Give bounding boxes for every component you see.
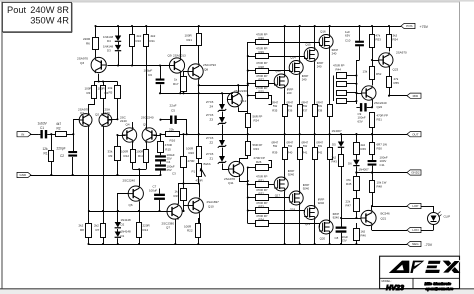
svg-text:100R: 100R [136, 149, 144, 153]
resistor R15 [158, 134, 173, 155]
svg-text:Q18: Q18 [290, 208, 296, 212]
svg-text:R5: R5 [109, 90, 113, 94]
resistor R24 [246, 114, 263, 128]
resistor R40 [287, 134, 303, 159]
svg-text:IN: IN [21, 132, 24, 136]
svg-text:5W: 5W [288, 104, 293, 108]
wire z2-z1 [222, 148, 224, 157]
svg-text:R10: R10 [136, 39, 142, 43]
svg-text:1N4007: 1N4007 [332, 129, 343, 133]
wire drain Q19 [314, 220, 316, 245]
mosfet Q16 [319, 29, 338, 55]
transistor Q1 [78, 108, 92, 127]
svg-text:2k2: 2k2 [137, 34, 142, 38]
transistor Q7 [162, 203, 183, 229]
wire Q12 emitter to bus [239, 108, 248, 112]
mosfet Q20 [319, 212, 339, 241]
svg-text:1N4148: 1N4148 [121, 218, 132, 222]
diode D4 [103, 25, 121, 43]
wire LOP line [372, 206, 407, 208]
wire Q10 collector up [199, 184, 201, 198]
wire Q11 collector down [240, 178, 249, 183]
diode D2 [115, 211, 131, 228]
svg-text:R33: R33 [259, 205, 265, 209]
svg-text:Q8: Q8 [204, 67, 208, 71]
wire Q23 base [371, 59, 379, 61]
svg-text:ZY15: ZY15 [206, 152, 214, 156]
wire vas line y93 [160, 93, 233, 95]
node rail dots [50, 25, 373, 245]
svg-text:5W: 5W [273, 144, 278, 148]
wire Q4 emitter down [132, 142, 134, 150]
svg-text:13k: 13k [363, 70, 368, 74]
wire z3-z2 [222, 125, 224, 141]
transistor Q9 [168, 53, 187, 73]
svg-text:POS: POS [406, 24, 412, 28]
transistor Q22 [362, 85, 387, 109]
svg-text:R2: R2 [57, 127, 61, 131]
wire GND lead [30, 175, 31, 177]
wire input ground line [31, 175, 161, 177]
svg-text:R14: R14 [143, 228, 149, 232]
wire base line y66 [107, 65, 169, 67]
svg-text:OUT: OUT [412, 132, 419, 136]
wire MID line [389, 95, 407, 97]
resistor R44 [333, 64, 357, 79]
wire gate bus upper [247, 42, 249, 114]
svg-text:5W: 5W [288, 144, 293, 148]
svg-text:63V: 63V [342, 239, 347, 243]
svg-text:2SC2240: 2SC2240 [123, 179, 136, 183]
title box Pout [2, 2, 72, 32]
wire y93 to Q12 base [231, 94, 233, 100]
logo APEX lettering [389, 261, 461, 273]
resistor R18 [181, 133, 195, 167]
svg-text:R24: R24 [254, 119, 260, 123]
resistor R16 [161, 128, 188, 143]
svg-text:Q21: Q21 [381, 217, 387, 221]
resistor R39 [272, 134, 288, 159]
transistor Q11 [224, 161, 244, 185]
connector LOP [407, 203, 421, 208]
wire drain column Q16 [329, 25, 331, 34]
svg-text:BIAS: BIAS [204, 162, 211, 166]
resistor R29 [248, 46, 305, 58]
wire bias join [178, 167, 200, 185]
svg-text:2k2: 2k2 [94, 224, 99, 228]
transistor Q3 [77, 57, 106, 73]
resistor R9 [108, 135, 121, 176]
svg-text:2SA1013: 2SA1013 [173, 53, 186, 57]
wire Q4 base [116, 134, 125, 136]
svg-text:R47: R47 [346, 204, 352, 208]
svg-text:2SC2240: 2SC2240 [141, 115, 154, 119]
wire Q5 base [154, 135, 161, 136]
svg-text:R31: R31 [259, 179, 265, 183]
capacitor C11 [368, 154, 388, 174]
svg-text:R3: R3 [87, 91, 91, 95]
zener Z2 [206, 136, 226, 148]
resistor R25 [248, 86, 272, 105]
resistor R41 [302, 134, 318, 159]
diode D6 [348, 154, 369, 174]
transistor Q12 [227, 89, 247, 108]
wire tail down [139, 169, 141, 186]
node C6 top [159, 64, 161, 66]
wire Q22 base [355, 92, 361, 94]
resistor R4 [98, 86, 109, 99]
connector IN [17, 132, 31, 137]
svg-text:R37: R37 [302, 109, 308, 113]
wire Q9 emitter up [181, 44, 200, 58]
svg-text:R39: R39 [272, 151, 278, 155]
zener Z4 [206, 100, 226, 112]
svg-text:9240: 9240 [333, 215, 340, 219]
transistor Q23 [379, 51, 407, 72]
svg-text:R36: R36 [287, 109, 293, 113]
wire z4-z3 [222, 112, 224, 118]
wire Q12 collector up [237, 84, 239, 92]
node R2 out [72, 133, 74, 135]
svg-text:5W: 5W [318, 104, 323, 108]
wire drain column Q15 [314, 25, 316, 47]
connector LON [407, 227, 421, 232]
resistor R2 [56, 122, 74, 137]
resistor R3 [85, 86, 97, 99]
svg-text:Q7: Q7 [166, 226, 170, 230]
svg-text:Q14: Q14 [290, 55, 296, 59]
svg-text:Q10: Q10 [208, 205, 214, 209]
svg-text:Q22: Q22 [377, 105, 383, 109]
svg-text:2SA970: 2SA970 [396, 51, 407, 55]
svg-text:R29: R29 [259, 50, 265, 54]
logo model text [382, 279, 404, 292]
svg-text:C2: C2 [60, 154, 64, 158]
svg-text:2SC4793: 2SC4793 [203, 63, 216, 67]
svg-text:apex@eunet.rs: apex@eunet.rs [426, 286, 455, 291]
resistor R1 [43, 134, 54, 176]
svg-text:1k: 1k [174, 78, 178, 82]
wire Q6 emitter down [138, 202, 140, 222]
svg-text:NEG: NEG [412, 242, 419, 246]
node C1-R2 [50, 133, 52, 135]
connector OUT [407, 132, 421, 137]
mosfet Q13 [274, 69, 293, 95]
svg-text:1u63V: 1u63V [38, 122, 48, 126]
svg-text:C8: C8 [335, 236, 339, 240]
svg-text:ZY15: ZY15 [206, 113, 214, 117]
svg-text:R52: R52 [376, 72, 382, 76]
wire Q6 collector up [139, 169, 141, 186]
resistor R55 [387, 77, 400, 97]
svg-text:12k: 12k [43, 147, 49, 151]
svg-text:2SA970: 2SA970 [77, 57, 88, 61]
wire Q22 emitter down [371, 100, 373, 109]
wire Q21 base [355, 217, 361, 219]
capacitor C5 [159, 104, 186, 135]
svg-text:R38: R38 [317, 109, 323, 113]
mosfet Q19 [304, 197, 324, 226]
diode D5 [332, 129, 345, 148]
resistor R17 [173, 77, 187, 95]
wire Q9 collector down [179, 74, 181, 95]
wire source column Q20 [329, 159, 331, 219]
svg-text:C3: C3 [172, 172, 176, 176]
resistor R10 [130, 25, 142, 67]
wire Q10 base [184, 205, 189, 207]
connector NEG [407, 241, 433, 247]
mosfet Q15 [304, 42, 323, 68]
svg-text:Q9: Q9 [168, 53, 172, 57]
svg-text:63V: 63V [345, 34, 350, 38]
zener Z1 [206, 152, 226, 164]
led CLIP [421, 206, 450, 231]
wire Q23 collector down [389, 66, 391, 76]
wire Q2 base [109, 119, 118, 121]
svg-text:2k2: 2k2 [151, 34, 156, 38]
wire source column Q19 [314, 159, 316, 205]
svg-text:63V: 63V [358, 119, 363, 123]
svg-text:220pF: 220pF [57, 147, 66, 151]
wire output bus [161, 134, 408, 136]
svg-text:Q12: Q12 [241, 99, 247, 103]
svg-text:5W: 5W [303, 144, 308, 148]
resistor R30 [248, 32, 320, 45]
transistor Q2 [95, 108, 112, 127]
svg-text:Q3: Q3 [80, 61, 84, 65]
svg-text:R21: R21 [187, 38, 193, 42]
svg-text:R43: R43 [332, 160, 338, 164]
wire Q5 emitter down [146, 142, 148, 150]
wire negative rail [89, 244, 408, 246]
svg-text:LOP: LOP [412, 204, 418, 208]
wire lower bias bus [89, 211, 168, 213]
resistor R46b [337, 91, 358, 96]
svg-text:D5: D5 [332, 143, 336, 147]
wire gate bus lower [247, 168, 249, 224]
svg-text:C7: C7 [153, 185, 157, 189]
svg-text:Q5: Q5 [143, 123, 147, 127]
svg-text:R40: R40 [287, 151, 293, 155]
svg-text:R53: R53 [376, 38, 382, 42]
wire r44 stack left bus [333, 76, 335, 102]
wire drain column Q13 [284, 25, 286, 74]
svg-text:22uF: 22uF [170, 104, 177, 108]
svg-text:5W: 5W [318, 144, 323, 148]
svg-text:100pF: 100pF [144, 69, 153, 73]
wire Q2 emitter up [103, 99, 105, 114]
svg-text:D1: D1 [121, 234, 125, 238]
svg-text:Z3: Z3 [210, 118, 214, 122]
resistor R45 [346, 173, 360, 191]
wire Q5 collector up [146, 127, 148, 129]
svg-text:2k2: 2k2 [79, 224, 84, 228]
svg-text:R28: R28 [259, 65, 265, 69]
resistor R6 [83, 26, 99, 57]
resistor R8 [79, 211, 92, 244]
svg-text:25V: 25V [167, 168, 172, 172]
svg-text:C11: C11 [380, 163, 385, 167]
svg-text:Q13: Q13 [275, 69, 281, 73]
wire source Q15 [314, 62, 316, 104]
svg-text:MID: MID [413, 94, 419, 98]
connector POS [401, 23, 429, 29]
resistor R32 [247, 188, 290, 201]
wire c4-c3 [160, 162, 162, 165]
wire source Q16 [329, 49, 331, 104]
wire z1 to Q11 base [223, 164, 229, 170]
svg-text:Q11: Q11 [228, 181, 234, 185]
svg-text:LON: LON [412, 228, 418, 232]
wire Q11 emitter up [240, 156, 248, 162]
svg-text:ZY15: ZY15 [206, 136, 214, 140]
logo box frame [380, 256, 460, 288]
wire drain Q17 [284, 192, 286, 246]
wire Q4 collector up stub [132, 122, 134, 128]
diode D1 [115, 229, 131, 245]
svg-text:Z2: Z2 [210, 141, 214, 145]
resistor R38 [316, 101, 332, 136]
svg-text:9240: 9240 [288, 172, 295, 176]
svg-text:R32: R32 [259, 192, 265, 196]
svg-text:R6: R6 [86, 41, 90, 45]
resistor R12 [121, 149, 136, 162]
resistor R34 [248, 214, 320, 228]
resistor R13 [136, 149, 148, 162]
svg-text:R22: R22 [187, 229, 193, 233]
resistor R48 [370, 173, 387, 208]
svg-text:C4: C4 [167, 160, 171, 164]
capacitor C3 [155, 164, 176, 176]
resistor R37 [302, 101, 318, 136]
svg-text:Q4: Q4 [126, 123, 130, 127]
zener Z3 [206, 113, 226, 125]
svg-text:240: 240 [317, 65, 322, 69]
wire Q2 collector down [102, 127, 104, 213]
svg-text:Z4: Z4 [210, 105, 214, 109]
wire Q1 collector down [88, 127, 90, 213]
resistor R49 [354, 133, 367, 154]
svg-text:P1: P1 [192, 170, 196, 174]
svg-text:Q23: Q23 [393, 68, 399, 72]
resistor R7 [94, 211, 106, 245]
mosfet Q18 [289, 183, 309, 212]
resistor R46 [354, 223, 367, 245]
resistor R23 [246, 142, 263, 156]
svg-text:R44: R44 [336, 68, 342, 72]
svg-text:22k: 22k [169, 128, 174, 132]
diode D3 [103, 42, 121, 67]
svg-text:970: 970 [105, 111, 110, 115]
svg-text:Q1: Q1 [80, 111, 84, 115]
svg-text:HV23: HV23 [386, 283, 404, 292]
svg-text:240: 240 [287, 91, 292, 95]
wire Q8 base [184, 72, 189, 77]
svg-text:R25: R25 [259, 90, 265, 94]
svg-text:R54: R54 [393, 38, 399, 42]
wire Q8 emitter down [198, 80, 200, 147]
wire IN lead [30, 134, 38, 136]
wire R3 R4 top join [95, 74, 118, 86]
resistor R5 [108, 82, 121, 121]
svg-text:R45: R45 [346, 182, 352, 186]
resistor R54 [387, 25, 399, 52]
wire drain Q20 [329, 235, 331, 246]
transistor Q8 [188, 63, 216, 80]
resistor R26 [247, 156, 272, 171]
trimmer P1 [192, 159, 211, 183]
connector MID [407, 93, 421, 98]
transistor Q4 [120, 115, 137, 142]
svg-text:470R: 470R [188, 159, 195, 163]
wire drain Q18 [299, 206, 301, 246]
svg-text:R20: R20 [189, 151, 195, 155]
svg-text:4k7: 4k7 [56, 122, 61, 126]
node fb [159, 133, 161, 135]
svg-text:R30: R30 [259, 36, 265, 40]
svg-text:C6: C6 [148, 73, 152, 77]
wire Q8 collector up [198, 45, 200, 64]
connector GND2 [407, 170, 421, 175]
svg-text:470R: 470R [196, 179, 204, 183]
svg-text:1N4007: 1N4007 [359, 167, 370, 171]
wire bus r24-r23 [247, 127, 249, 142]
resistor R36 [287, 101, 303, 136]
wire emitter join [133, 162, 147, 170]
svg-text:R13: R13 [138, 154, 144, 158]
svg-text:R27: R27 [259, 78, 265, 82]
mosfet Q17 [274, 169, 294, 198]
wire Q21 emitter down [371, 226, 373, 230]
svg-text:9240: 9240 [303, 186, 310, 190]
wire Q1 base riser [74, 120, 80, 135]
svg-text:D2: D2 [121, 223, 125, 227]
svg-text:R12: R12 [124, 154, 130, 158]
wire Q21 collector up [371, 206, 373, 210]
wire Q1 emitter up [89, 99, 95, 114]
wire gate stack bus [356, 76, 358, 105]
wire drain column Q14 [299, 25, 301, 60]
wire zener column top [221, 92, 223, 104]
svg-text:R48: R48 [377, 185, 383, 189]
svg-text:Q2: Q2 [95, 113, 99, 117]
resistor R27 [248, 74, 275, 87]
capacitor C7 [149, 185, 165, 212]
svg-text:Q16: Q16 [320, 29, 326, 33]
wire GND2 line [356, 172, 407, 174]
svg-text:2SA1837: 2SA1837 [207, 200, 220, 204]
logo author text [425, 281, 455, 291]
resistor R20 [186, 147, 202, 159]
svg-text:R11: R11 [150, 39, 156, 43]
svg-text:R55: R55 [394, 81, 400, 85]
svg-text:R16: R16 [170, 139, 176, 143]
svg-text:R23: R23 [254, 147, 260, 151]
svg-text:1k: 1k [175, 189, 179, 193]
resistor R45b [337, 82, 358, 87]
wire Q7 collector up [178, 184, 180, 204]
svg-text:R9: R9 [109, 154, 113, 158]
svg-text:Z1: Z1 [210, 157, 214, 161]
svg-text:GND2: GND2 [411, 171, 420, 175]
resistor R47b [337, 99, 358, 104]
capacitor C4 [155, 153, 175, 164]
connector GND [17, 172, 31, 177]
wire Q6 base [117, 194, 129, 213]
wire vas line y85 [199, 85, 248, 87]
resistor R51 [370, 113, 388, 136]
resistor R53 [370, 25, 382, 60]
